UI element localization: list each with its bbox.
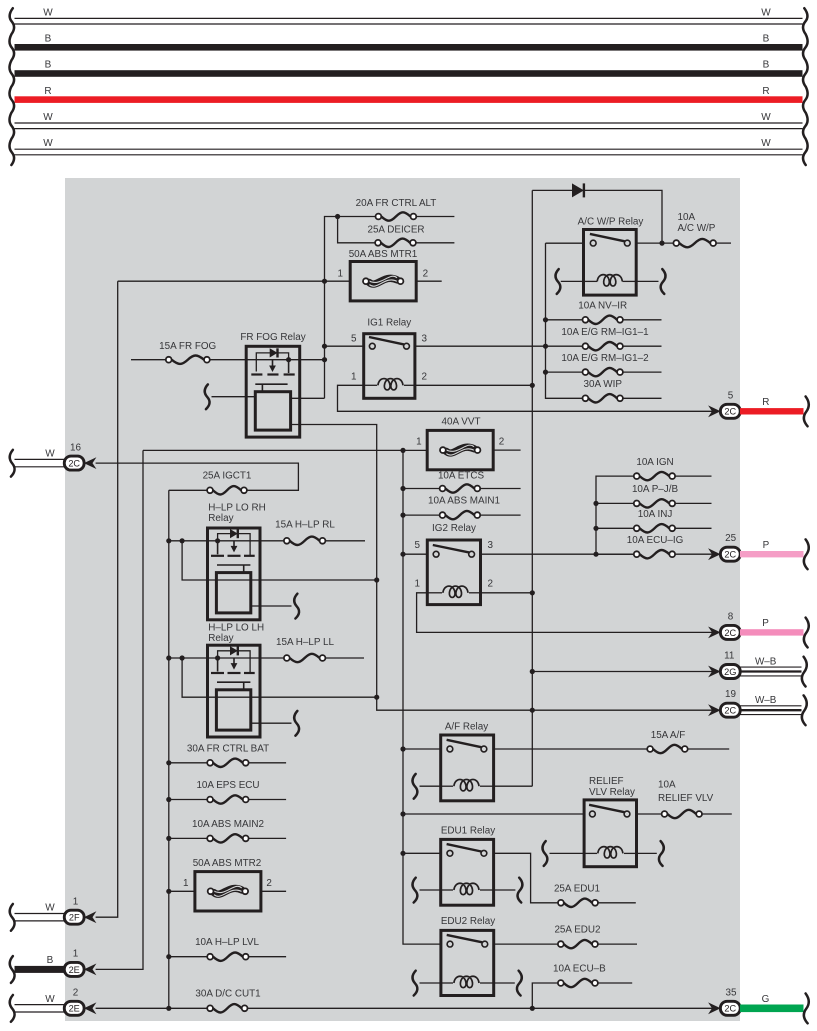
svg-text:5: 5	[351, 334, 357, 345]
wire EDU1 coil pin2 + break	[494, 889, 516, 891]
EDU2 relay contact	[447, 935, 483, 942]
svg-text:25A EDU2: 25A EDU2	[554, 925, 600, 936]
svg-text:15A H–LP RL: 15A H–LP RL	[275, 520, 335, 531]
svg-text:W: W	[45, 994, 55, 1005]
wire IG2 pin5 feed	[400, 552, 405, 557]
svg-text:2: 2	[488, 579, 494, 590]
wire IG2 coil pin2 to bus 532	[481, 592, 533, 594]
fuse 10A IGN	[640, 472, 670, 480]
svg-text:10A E/G RM–IG1–2: 10A E/G RM–IG1–2	[561, 353, 648, 364]
fuse 10A INJ	[593, 526, 598, 531]
wire A/C W/P coil pin right + break	[636, 280, 658, 282]
svg-text:R: R	[44, 86, 51, 97]
wire FR FOG inner left pin + break	[212, 396, 256, 398]
IG2 relay coil	[443, 586, 468, 597]
W-B wire break 11	[802, 657, 807, 687]
wire IG1 coil pin2 to bus 532	[415, 384, 532, 386]
fuse 10A E/G RM–IG1–2	[543, 370, 548, 375]
IG1 Relay	[364, 334, 415, 399]
fuse 10A P–J/B	[593, 501, 598, 506]
svg-text:1: 1	[415, 579, 421, 590]
H–LP LO RH inner element box	[216, 573, 250, 613]
fuse 10A ETCS	[400, 486, 405, 491]
svg-text:2: 2	[422, 372, 428, 383]
svg-text:10A ECU–B: 10A ECU–B	[553, 964, 606, 975]
W-B wire break 19	[802, 695, 807, 725]
wire EDU2 output to fuse	[494, 943, 558, 945]
svg-text:15A A/F: 15A A/F	[651, 730, 686, 741]
wire IG1 pin5 to bus 324	[325, 345, 364, 347]
wire diode feed (y=190.4)	[532, 190, 662, 243]
fuse 30A D/C CUT1 + run to connector 35	[96, 1007, 208, 1009]
wire IG2 coil pin1 to connector 8 run	[417, 593, 721, 633]
fuse 10A EPS ECU	[166, 797, 171, 802]
svg-text:EDU2 Relay: EDU2 Relay	[441, 916, 495, 927]
H–LP LO LH input wire	[169, 657, 284, 659]
svg-text:B: B	[45, 60, 52, 71]
A/C W/P relay coil	[597, 275, 622, 286]
svg-text:1: 1	[73, 897, 79, 908]
bus x=168.8 (25A IGCT1 down to bottom fuse bank)	[168, 490, 170, 1008]
H–LP LO RH bottom pin wire + break	[251, 605, 292, 607]
fuse 15A FR FOG	[131, 359, 166, 361]
EDU1 Relay	[441, 839, 494, 905]
svg-text:50A ABS MTR1: 50A ABS MTR1	[349, 249, 418, 260]
svg-text:W: W	[43, 138, 53, 149]
EDU1 relay coil	[454, 883, 479, 894]
svg-text:2: 2	[73, 988, 79, 999]
wire EDU2 coil pin1 + break	[420, 982, 441, 984]
wire EDU1 switch feed	[400, 851, 405, 856]
svg-text:2E: 2E	[69, 1004, 80, 1014]
svg-text:11: 11	[724, 651, 735, 662]
svg-text:VLV Relay: VLV Relay	[589, 787, 635, 798]
svg-text:10A ETCS: 10A ETCS	[438, 470, 485, 481]
node: bus 532 at 11-wire	[530, 669, 535, 674]
svg-text:3: 3	[488, 540, 494, 551]
wire RELIEF coil pin2 + break	[637, 852, 657, 854]
svg-text:2C: 2C	[724, 706, 736, 716]
wire W-B to connector 11	[740, 666, 802, 668]
bus x=143 (40A VVT feed down to connector 1 2E)	[96, 450, 143, 969]
wire IG1 pin3 to fuse bank bus	[415, 345, 546, 347]
svg-text:2F: 2F	[69, 913, 80, 923]
node: bus 532 at 19-wire	[530, 708, 535, 713]
svg-text:W–B: W–B	[755, 657, 777, 668]
svg-text:10A: 10A	[678, 212, 696, 223]
wire branch to 25A DEICER	[338, 217, 376, 243]
svg-text:B: B	[47, 955, 54, 966]
16 wire left break	[10, 450, 15, 477]
wire connector 16 to 25A IGCT1	[96, 463, 299, 490]
wire RELIEF coil pin1 + break	[550, 852, 585, 854]
wire A/F coil pin2 to bus 532	[494, 785, 533, 787]
svg-text:3: 3	[422, 334, 428, 345]
svg-text:30A D/C CUT1: 30A D/C CUT1	[195, 989, 261, 1000]
node: bus 532 at IG1 coil	[530, 383, 535, 388]
junction block (fuse/relay box) background	[65, 178, 740, 1021]
fuse 25A DEICER	[381, 239, 410, 247]
svg-text:W: W	[43, 112, 53, 123]
fuse 25A EDU1	[564, 899, 592, 907]
connector 19 2C	[720, 703, 740, 717]
H–LP LO RH through wire	[182, 541, 377, 580]
bus from 20A fuse row down left col (x=324.5)	[325, 217, 338, 399]
bus x=117.7 (ABS MTR1 feed down to connector 1 2F)	[96, 281, 118, 917]
node: bus 532 at IG2 coil	[530, 590, 535, 595]
EDU2 Relay	[441, 930, 494, 995]
svg-text:16: 16	[70, 442, 81, 453]
bus x=545.5 (A/C relay to right fuse bank)	[546, 242, 584, 244]
svg-text:B: B	[45, 34, 52, 45]
svg-text:30A FR CTRL BAT: 30A FR CTRL BAT	[187, 743, 269, 754]
fuse 10A RELIEF VLV	[667, 810, 696, 818]
svg-text:2: 2	[499, 437, 505, 448]
wire harness run 5 (W)	[15, 122, 803, 124]
svg-text:2E: 2E	[69, 965, 80, 975]
connector 1 2E	[15, 966, 65, 973]
fusible link 50A ABS MTR1	[350, 262, 416, 301]
svg-text:EDU1 Relay: EDU1 Relay	[441, 826, 495, 837]
svg-text:2C: 2C	[724, 628, 736, 638]
P wire break	[804, 539, 809, 569]
wire 25A DEICER output	[416, 242, 455, 244]
H–LP LO RH gate plate	[217, 564, 250, 566]
svg-text:5: 5	[728, 390, 734, 401]
svg-text:Relay: Relay	[208, 633, 233, 644]
wire 40A VVT feed row	[143, 449, 428, 451]
fusible link 40A VVT	[427, 430, 493, 469]
node: bus 403 start	[400, 448, 405, 453]
svg-text:2C: 2C	[724, 1004, 736, 1014]
wire RELIEF output	[637, 813, 662, 815]
wire W-B to connector 19	[740, 705, 802, 707]
svg-text:25: 25	[725, 533, 736, 544]
wire 50A ABS MTR1 output	[416, 280, 442, 282]
fuse 10A NV–IR	[543, 317, 548, 322]
svg-text:IG2 Relay: IG2 Relay	[432, 523, 476, 534]
H–LP LO RH transistor terminals	[211, 555, 224, 557]
H–LP LO LH Relay	[208, 645, 261, 737]
wire G to connector 35	[740, 1005, 804, 1013]
RELIEF VLV relay contact	[589, 805, 624, 812]
wire P to connector 25	[740, 551, 804, 557]
wire IG2 pin3 to IGN fuse bank	[481, 553, 636, 555]
wire A/F switch feed	[400, 746, 405, 751]
FR FOG internal diode circuit	[256, 353, 288, 372]
svg-text:30A WIP: 30A WIP	[583, 379, 622, 390]
svg-text:15A FR FOG: 15A FR FOG	[159, 341, 216, 352]
bus x=596 (IGN fuse bank)	[596, 476, 634, 554]
fusible link 50A ABS MTR2	[166, 889, 171, 894]
svg-text:2: 2	[266, 878, 272, 889]
wire 20A FR CTRL ALT row	[338, 216, 376, 218]
svg-text:R: R	[762, 397, 769, 408]
H–LP LO LH bottom pin wire + break	[251, 722, 292, 724]
fuse 10A ABS MAIN2	[166, 836, 171, 841]
fuse 20A FR CTRL ALT	[381, 212, 410, 220]
R wire break	[804, 397, 809, 427]
svg-text:W: W	[761, 7, 771, 18]
svg-text:A/C W/P: A/C W/P	[678, 223, 716, 234]
wire RELIEF feed from bus 403	[400, 811, 405, 816]
svg-text:1: 1	[351, 372, 357, 383]
svg-text:W–B: W–B	[755, 695, 777, 706]
fuse 10A ABS MAIN1	[400, 513, 405, 518]
node: bus 324 at IG1 pin5	[322, 344, 327, 349]
node: diode joins A/C W/P output	[659, 241, 664, 246]
node: junction 20A/DEICER branch	[335, 214, 340, 219]
wire harness run 6 (W)	[15, 148, 803, 150]
wire harness run 1 (W)	[15, 17, 803, 19]
wire IG1 coil pin1 to connector 5 run	[338, 385, 721, 411]
svg-text:10A INJ: 10A INJ	[638, 509, 673, 520]
EDU1 relay contact	[447, 844, 482, 851]
FR FOG Relay	[246, 346, 300, 437]
svg-text:1: 1	[183, 878, 189, 889]
fuse 10A H-LP LVL	[166, 954, 171, 959]
svg-text:10A ABS MAIN2: 10A ABS MAIN2	[192, 819, 264, 830]
connector 11 2G	[720, 665, 740, 679]
diode D (A/C W/P feed)	[572, 183, 584, 197]
svg-text:1: 1	[73, 949, 79, 960]
fuse 10A ECU–IG	[593, 552, 598, 557]
svg-text:25A DEICER: 25A DEICER	[367, 225, 424, 236]
harness right edge break serpentine	[803, 8, 808, 165]
wire harness run 4 (R)	[15, 96, 803, 103]
fuse 10A E/G RM–IG1–1	[543, 344, 548, 349]
svg-text:25A EDU1: 25A EDU1	[554, 884, 601, 895]
P wire break 8	[804, 618, 809, 648]
wire R to connector 5	[740, 408, 804, 414]
node: FR FOG internal junction	[286, 357, 291, 362]
svg-text:P: P	[762, 618, 769, 629]
svg-text:W: W	[761, 138, 771, 149]
connector 5 2C	[720, 404, 740, 418]
svg-text:35: 35	[726, 987, 737, 998]
fuse 10A A/C W/P	[679, 239, 710, 247]
fuse 30A WIP	[588, 394, 617, 402]
svg-text:10A P–J/B: 10A P–J/B	[632, 484, 679, 495]
svg-text:10A: 10A	[658, 780, 676, 791]
wire FR FOG inner right-bottom pin to bus 376.7	[291, 425, 721, 711]
H–LP LO LH transistor terminals	[211, 672, 224, 674]
svg-text:50A ABS MTR2: 50A ABS MTR2	[193, 858, 262, 869]
G wire break	[804, 994, 809, 1024]
A/C W/P Relay	[584, 230, 637, 296]
svg-text:10A H–LP LVL: 10A H–LP LVL	[195, 937, 259, 948]
connector 25 2C	[720, 547, 740, 561]
fuse 15A A/F	[653, 745, 682, 753]
svg-text:10A NV–IR: 10A NV–IR	[578, 301, 627, 312]
fuse 30A FR CTRL BAT	[166, 760, 171, 765]
svg-text:A/C W/P Relay: A/C W/P Relay	[578, 217, 644, 228]
wire harness run 2 (B)	[15, 44, 803, 51]
svg-text:20A FR CTRL ALT: 20A FR CTRL ALT	[356, 198, 437, 209]
wire A/C W/P relay output	[636, 242, 673, 244]
fuse 25A IGCT1	[213, 486, 241, 494]
svg-text:B: B	[763, 60, 770, 71]
bus x=532.3 (diode row down to A/F relay coil)	[531, 190, 533, 786]
svg-text:RELIEF VLV: RELIEF VLV	[658, 793, 714, 804]
wire FR FOG inner right-top pin to bus 324	[291, 397, 325, 399]
svg-text:10A IGN: 10A IGN	[636, 457, 673, 468]
EDU2 relay coil	[454, 976, 479, 987]
connector 1 2F	[15, 913, 65, 915]
connector 35 2C	[720, 1001, 740, 1015]
wire A/C W/P coil pin left + break	[561, 280, 584, 282]
svg-text:40A VVT: 40A VVT	[442, 416, 481, 427]
svg-text:2C: 2C	[68, 459, 80, 469]
wire EDU1 coil pin1 + break	[420, 889, 441, 891]
FR FOG relay input wire through	[246, 359, 324, 361]
H–LP LO LH through wire	[182, 658, 377, 697]
svg-text:RELIEF: RELIEF	[589, 776, 624, 787]
svg-text:10A EPS ECU: 10A EPS ECU	[196, 780, 259, 791]
node: bus 324 at FR FOG	[322, 357, 327, 362]
svg-text:P: P	[763, 540, 770, 551]
fuse 10A ECU-B	[532, 983, 558, 1008]
svg-text:R: R	[762, 86, 769, 97]
IG1 relay contact	[369, 337, 404, 344]
H–LP LO RH internal diode circuit	[218, 534, 251, 556]
svg-text:19: 19	[725, 689, 736, 700]
H–LP LO LH inner element box	[216, 690, 250, 730]
A/F relay contact	[447, 740, 482, 747]
RELIEF VLV relay coil	[598, 847, 623, 858]
svg-text:A/F Relay: A/F Relay	[445, 721, 488, 732]
A/F relay coil	[454, 779, 479, 790]
svg-text:FR FOG Relay: FR FOG Relay	[240, 332, 305, 343]
H–LP LO LH internal diode circuit	[218, 651, 251, 673]
wire EDU2 coil pin2 + break	[494, 982, 515, 984]
node: bus x324 at ABS MTR1 row	[322, 279, 327, 284]
svg-text:W: W	[45, 449, 55, 460]
svg-text:2C: 2C	[724, 550, 736, 560]
svg-text:2C: 2C	[724, 407, 736, 417]
svg-text:W: W	[761, 112, 771, 123]
IG1 relay coil	[378, 379, 403, 390]
connector 8 2C	[720, 625, 740, 639]
svg-text:W: W	[45, 903, 55, 914]
harness left edge break serpentine	[9, 8, 14, 165]
svg-text:8: 8	[728, 611, 734, 622]
H–LP LO RH input wire	[169, 540, 284, 542]
svg-text:10A E/G RM–IG1–1: 10A E/G RM–IG1–1	[561, 327, 649, 338]
connector 16 2C	[15, 458, 65, 460]
svg-text:2G: 2G	[724, 667, 736, 677]
H–LP LO RH Relay	[208, 528, 261, 620]
FR FOG inner element box	[255, 392, 290, 430]
A/C W/P relay contact	[590, 234, 625, 241]
wire A/C W/P relay pin-left to bus 545	[546, 242, 584, 244]
wire harness run 3 (B)	[15, 70, 803, 77]
svg-text:B: B	[763, 34, 770, 45]
wire connector 11 run from bus 532	[532, 671, 720, 673]
wire EDU1 output jog to fuse	[494, 853, 558, 903]
wire 50A ABS MTR1 feed row (y=281.2)	[118, 280, 351, 282]
svg-text:5: 5	[415, 540, 421, 551]
svg-text:25A IGCT1: 25A IGCT1	[203, 471, 252, 482]
svg-text:1: 1	[338, 269, 344, 280]
RELIEF VLV Relay	[584, 800, 636, 867]
svg-text:2: 2	[423, 269, 429, 280]
svg-text:IG1 Relay: IG1 Relay	[367, 318, 411, 329]
svg-text:G: G	[762, 994, 770, 1005]
svg-text:Relay: Relay	[208, 513, 233, 524]
connector 2 2E	[15, 1004, 65, 1006]
IG2 Relay	[427, 540, 480, 605]
svg-text:10A ECU–IG: 10A ECU–IG	[627, 535, 684, 546]
wire A/F output to fuse	[494, 748, 648, 750]
svg-text:1: 1	[416, 437, 422, 448]
IG2 relay contact	[433, 545, 469, 552]
bus x=403 (VVT row down to EDU2 relay)	[403, 450, 441, 944]
H–LP LO LH gate plate	[217, 681, 250, 683]
svg-text:W: W	[43, 7, 53, 18]
wire A/F coil pin1 + break	[420, 785, 441, 787]
FR FOG gate plate	[255, 383, 287, 385]
fuse 25A EDU2	[564, 940, 592, 948]
svg-text:10A ABS MAIN1: 10A ABS MAIN1	[428, 496, 500, 507]
svg-text:15A H–LP LL: 15A H–LP LL	[276, 637, 335, 648]
wire P to connector 8	[740, 629, 804, 635]
A/F Relay	[441, 735, 494, 801]
FR FOG transistor terminals	[251, 373, 262, 375]
